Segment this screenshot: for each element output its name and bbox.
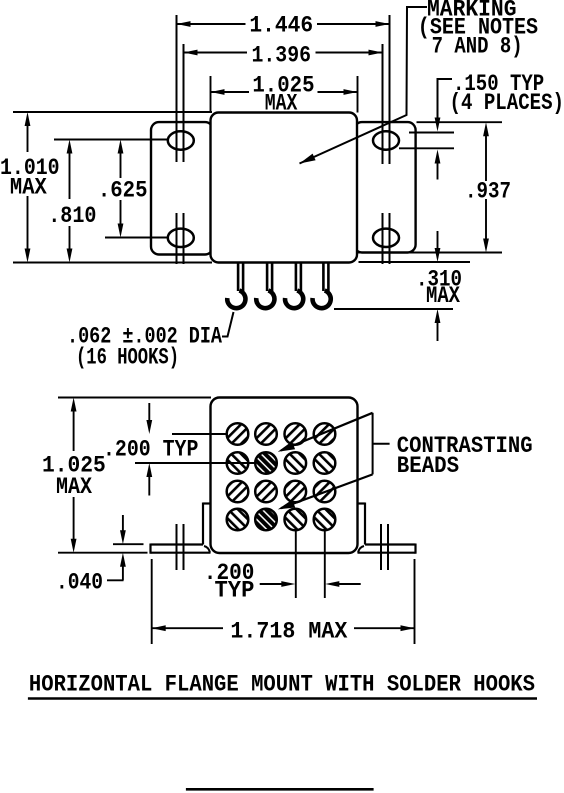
relay body (bottom view) bbox=[211, 398, 358, 554]
dim .200 typ bottom text bbox=[204, 560, 255, 605]
left mounting flange (top view) bbox=[151, 122, 213, 254]
lower slot centerline left bbox=[105, 237, 168, 239]
right flange foot (bottom view) bbox=[358, 503, 416, 554]
hook bottom extension line bbox=[334, 308, 453, 310]
dim 1.025 line bbox=[211, 89, 358, 95]
svg-text:MAX: MAX bbox=[56, 474, 93, 501]
lower-left mounting slot bbox=[168, 229, 194, 247]
body bottom extension (bottom view) bbox=[58, 552, 148, 554]
svg-text:1.396: 1.396 bbox=[252, 43, 312, 70]
flange bottom extension line right bbox=[358, 252, 502, 254]
dim 1.718 text bbox=[230, 619, 348, 646]
dim 1.718 extension lines bbox=[152, 559, 415, 644]
bead r2c2 bbox=[255, 452, 277, 474]
dim 1.025 bottom text bbox=[42, 453, 106, 502]
right mounting flange (top view) bbox=[354, 122, 416, 252]
marking note text bbox=[418, 0, 538, 61]
dim .200 typ left arrows bbox=[146, 403, 152, 496]
contrasting beads bracket bbox=[278, 413, 390, 510]
bead col extension lines bbox=[296, 531, 325, 598]
dim 1.446 line bbox=[177, 21, 390, 27]
dim 1.010 arrows bbox=[25, 112, 31, 263]
svg-text:MAX: MAX bbox=[426, 283, 461, 310]
svg-text:1.718 MAX: 1.718 MAX bbox=[230, 619, 348, 646]
dim .937 arrows bbox=[483, 122, 489, 252]
body top extension (bottom view) bbox=[58, 397, 211, 399]
right slot line / 1.446 extension bbox=[389, 15, 391, 264]
flange top extension line right bbox=[417, 121, 503, 123]
contrasting beads text bbox=[397, 433, 533, 480]
svg-text:7 AND 8): 7 AND 8) bbox=[432, 34, 523, 61]
left flange foot (bottom view) bbox=[151, 503, 211, 554]
solder hook 2 bbox=[256, 263, 274, 309]
dim .150 lower arrow bbox=[435, 150, 441, 180]
hole tangent line upper right bbox=[409, 132, 454, 134]
bead r1c4 bbox=[314, 423, 336, 445]
left slot lines (bottom view) bbox=[177, 524, 184, 570]
dim 1.025 bottom arrows bbox=[71, 398, 77, 553]
relay body (top view) bbox=[211, 113, 358, 263]
dim 1.396 line bbox=[184, 50, 383, 56]
dim .040 text bbox=[56, 570, 103, 597]
bead r1c3 bbox=[285, 423, 307, 445]
bead r4c4 bbox=[314, 509, 336, 531]
bead r4c2 bbox=[255, 509, 277, 531]
bead row2 line bbox=[135, 462, 255, 464]
right slot line / 1.396 extension bbox=[382, 44, 384, 264]
bead r2c1 bbox=[227, 452, 249, 474]
dim .625 text bbox=[98, 178, 148, 205]
dim .625 arrows bbox=[118, 140, 124, 238]
dim 1.010 text bbox=[0, 155, 60, 202]
svg-text:.937: .937 bbox=[465, 179, 511, 206]
bottom rule bbox=[186, 788, 374, 791]
left slot line / 1.446 extension bbox=[176, 15, 178, 264]
dim .310 arrows bbox=[435, 231, 441, 341]
upper slot centerline left bbox=[54, 139, 168, 141]
svg-text:MAX: MAX bbox=[10, 175, 48, 202]
dim 1.025 extension lines bbox=[211, 76, 358, 113]
bead r3c3 bbox=[285, 481, 307, 503]
dim .150 text bbox=[450, 71, 564, 117]
bead r3c2 bbox=[255, 481, 277, 503]
dim .040 arrows bbox=[107, 515, 126, 580]
upper-right mounting slot bbox=[373, 131, 399, 149]
dim .810 text bbox=[48, 203, 96, 230]
title underline bbox=[28, 697, 537, 700]
svg-text:TYP: TYP bbox=[215, 578, 255, 605]
svg-text:.200 TYP: .200 TYP bbox=[103, 437, 198, 464]
body top extension line left bbox=[13, 111, 212, 113]
body bottom extension line right bbox=[359, 261, 471, 263]
left slot line / 1.396 extension bbox=[183, 44, 185, 264]
bead r1c1 bbox=[227, 423, 249, 445]
bead row1 line bbox=[172, 433, 227, 435]
solder hook 4 bbox=[313, 263, 331, 309]
dim .310 text bbox=[416, 267, 462, 311]
dim .150 leader bbox=[435, 79, 452, 132]
svg-text:.810: .810 bbox=[48, 203, 96, 230]
solder hook 1 bbox=[227, 263, 245, 309]
body bottom extension line left bbox=[13, 262, 212, 264]
svg-text:MAX: MAX bbox=[265, 91, 298, 118]
svg-text:1.446: 1.446 bbox=[249, 13, 313, 40]
solder hook 3 bbox=[285, 263, 303, 309]
dim .937 text bbox=[465, 179, 511, 206]
dim 1.446 text bbox=[249, 13, 313, 40]
hook dia leader bbox=[222, 312, 234, 337]
bead r4c3 bbox=[285, 509, 307, 531]
svg-text:.625: .625 bbox=[98, 178, 148, 205]
title text bbox=[29, 672, 535, 699]
bead r3c4 bbox=[314, 481, 336, 503]
hole tangent line lower right bbox=[399, 147, 454, 149]
dim 1.025 text bbox=[252, 73, 314, 118]
dim .200 typ bottom arrows bbox=[260, 581, 361, 587]
bead r2c4 bbox=[314, 452, 336, 474]
bead r3c1 bbox=[227, 481, 249, 503]
dim 1.718 line bbox=[152, 625, 415, 631]
upper-left mounting slot bbox=[168, 131, 194, 149]
marking leader bbox=[300, 7, 428, 164]
dim 1.396 text bbox=[252, 43, 312, 70]
hook dia text bbox=[67, 324, 223, 372]
lower-right mounting slot bbox=[373, 229, 399, 247]
svg-text:HORIZONTAL FLANGE MOUNT WITH S: HORIZONTAL FLANGE MOUNT WITH SOLDER HOOK… bbox=[29, 672, 535, 699]
dim .040 ref line bbox=[113, 543, 144, 545]
bead r2c3 bbox=[285, 452, 307, 474]
bead r1c2 bbox=[255, 423, 277, 445]
bead r4c1 bbox=[227, 509, 249, 531]
right slot lines (bottom view) bbox=[381, 524, 388, 570]
dim .200 typ left text bbox=[103, 437, 198, 464]
dim .810 arrows bbox=[67, 140, 73, 263]
svg-text:.040: .040 bbox=[56, 570, 103, 597]
svg-text:BEADS: BEADS bbox=[397, 453, 459, 480]
svg-text:(16 HOOKS): (16 HOOKS) bbox=[76, 345, 179, 372]
svg-text:(4 PLACES): (4 PLACES) bbox=[450, 90, 564, 117]
